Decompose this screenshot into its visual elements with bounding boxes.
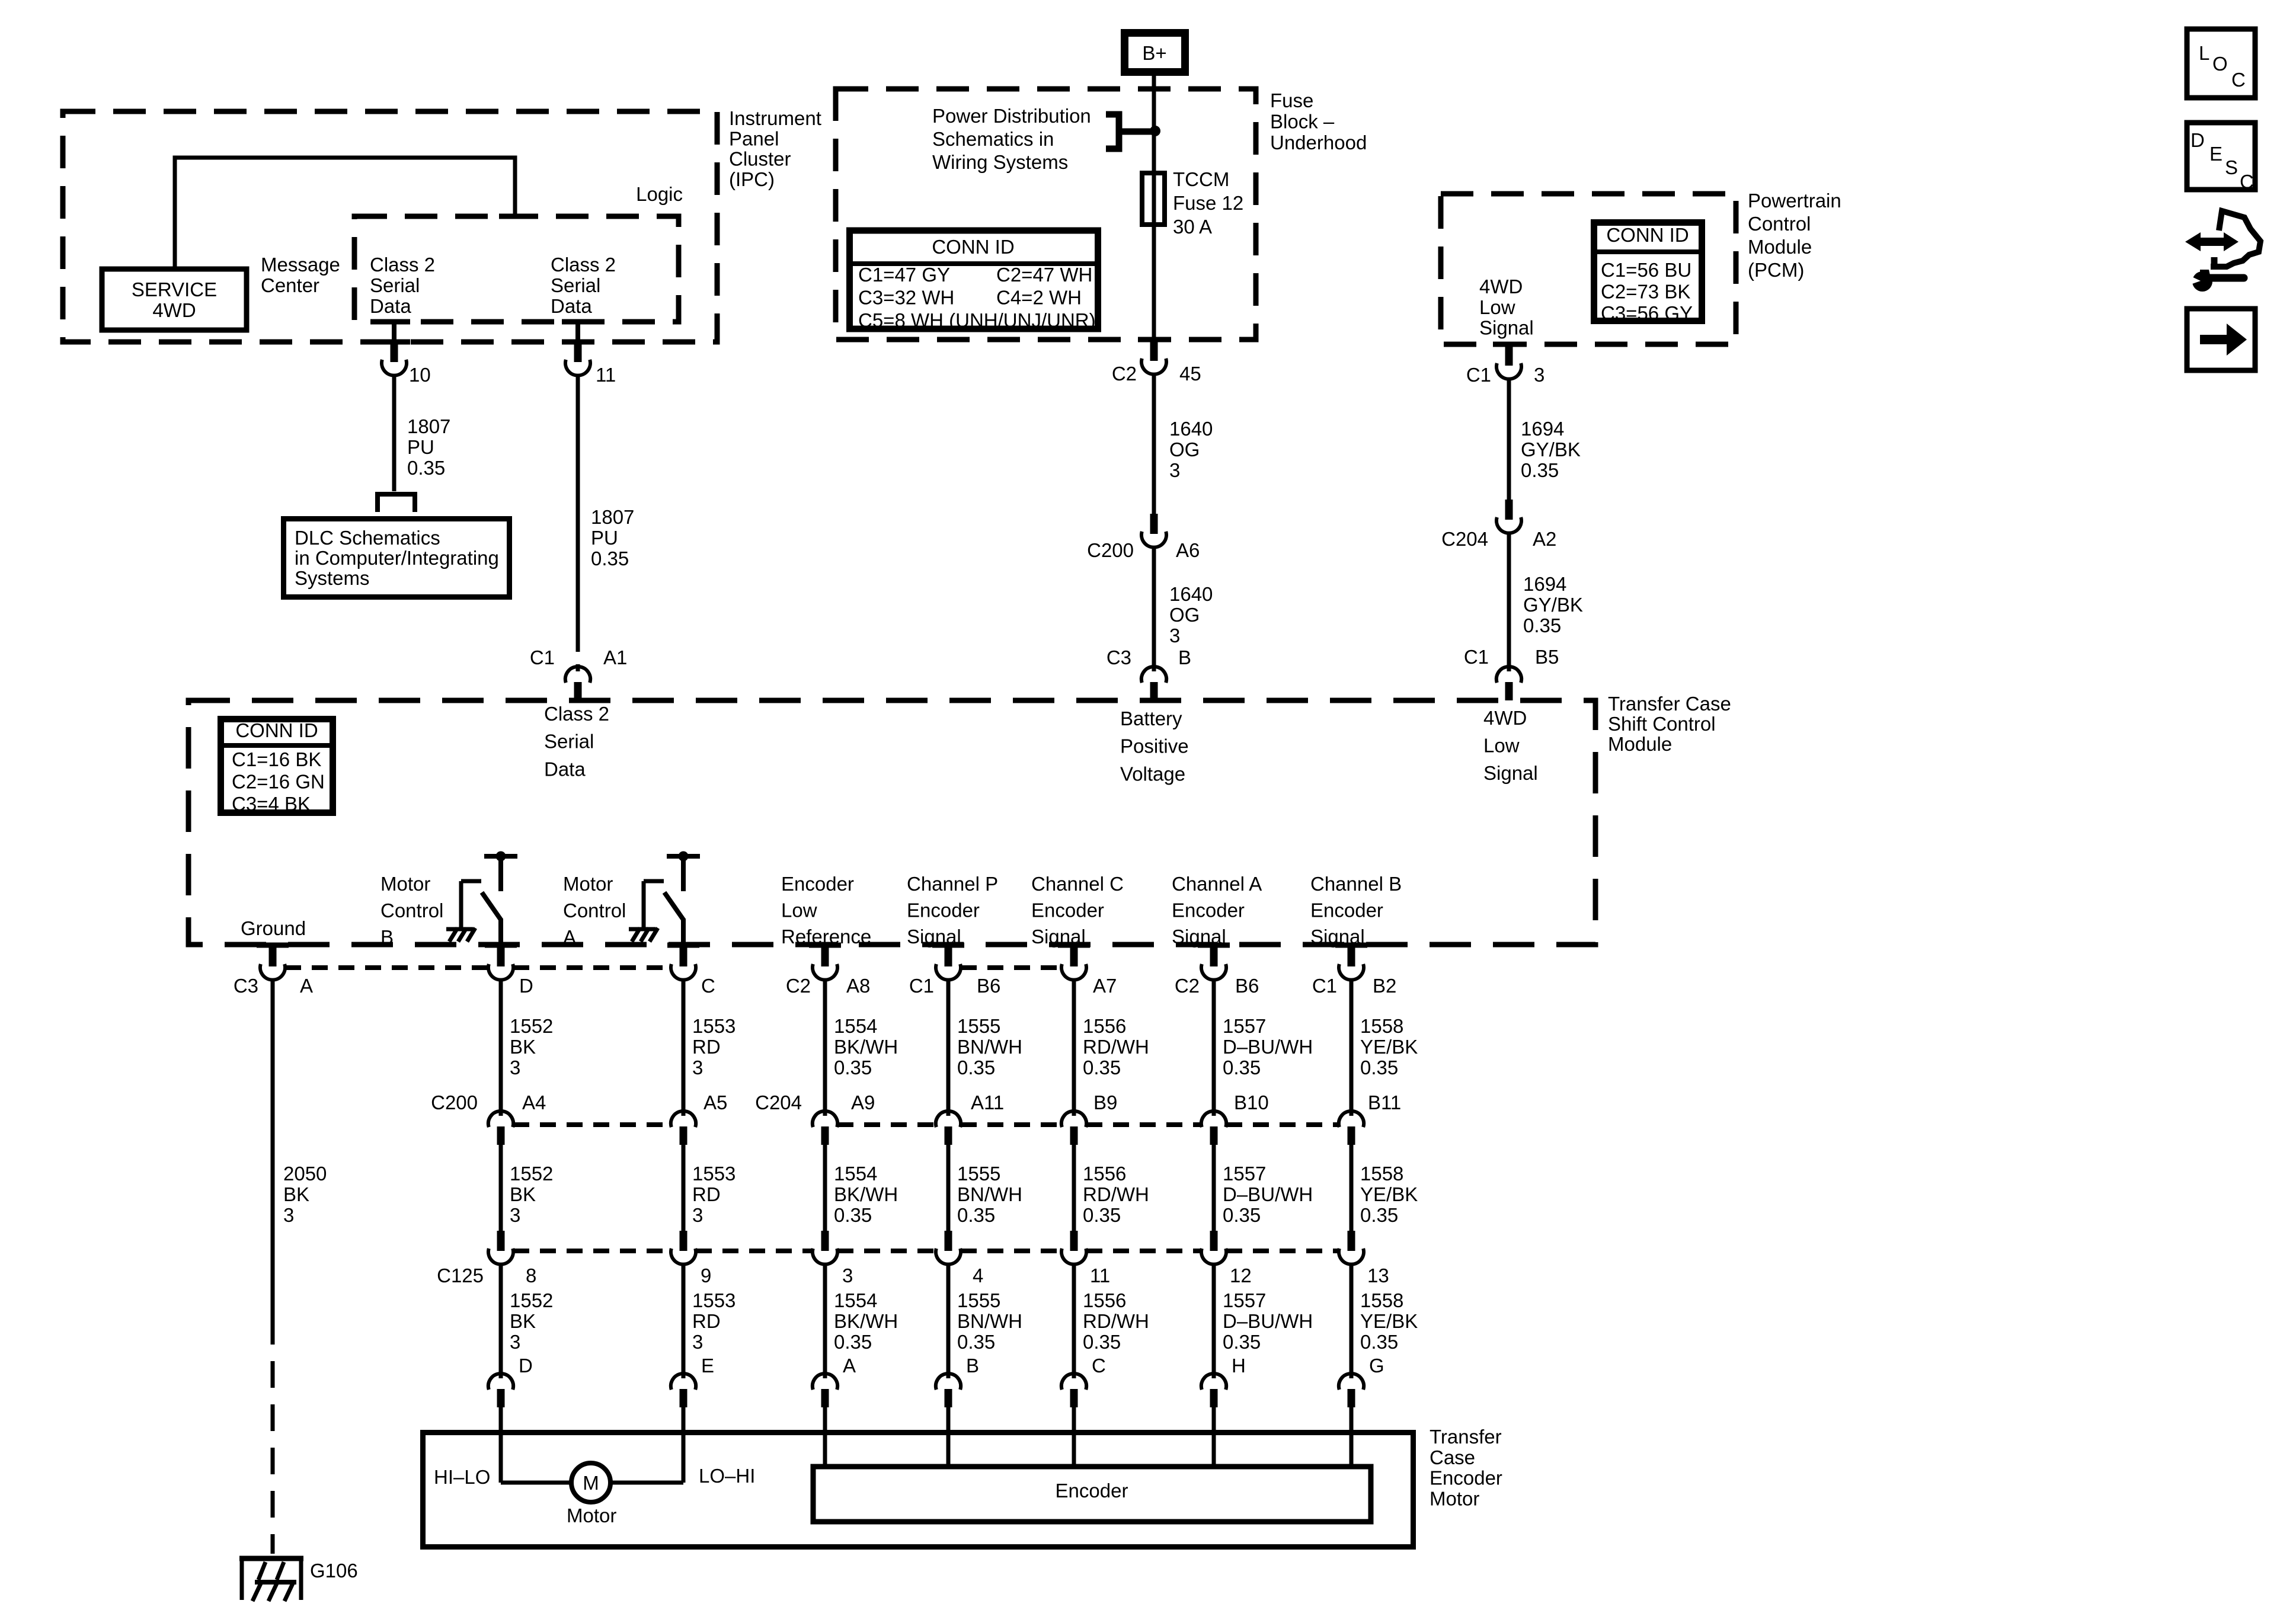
svg-text:1807: 1807 [591,506,634,528]
svg-text:Encoder: Encoder [1430,1467,1502,1489]
svg-text:1555: 1555 [957,1289,1000,1311]
wire 1558 segment2 [1350,1143,1354,1231]
svg-text:4WD: 4WD [152,299,196,321]
svg-text:1554: 1554 [834,1163,877,1185]
wire SERVICE 4WD to Logic box [175,158,515,267]
svg-text:BK/WH: BK/WH [834,1183,898,1205]
svg-text:A: A [563,926,576,948]
svg-text:D–BU/WH: D–BU/WH [1223,1183,1313,1205]
svg-text:Serial: Serial [370,274,420,296]
svg-text:1694: 1694 [1521,418,1564,440]
svg-text:0.35: 0.35 [1083,1057,1121,1078]
svg-text:Control: Control [380,900,443,921]
svg-text:C3: C3 [1107,646,1131,668]
DLC Schematics box [284,519,510,597]
wire 1558 segment1 [1350,980,1354,1110]
svg-text:A5: A5 [703,1092,727,1113]
svg-text:3: 3 [510,1331,520,1353]
svg-text:BK: BK [510,1310,536,1332]
svg-text:YE/BK: YE/BK [1360,1183,1418,1205]
wire ground 2050 BK solid [271,980,275,1318]
svg-text:C1: C1 [530,646,555,668]
svg-text:Class 2: Class 2 [551,254,616,276]
wire 1555 segment3 [946,1266,951,1372]
wire 1552 segment2 [499,1143,503,1231]
svg-text:1554: 1554 [834,1015,877,1037]
svg-text:OG: OG [1169,438,1200,460]
svg-text:Class 2: Class 2 [544,703,609,725]
link line row1 ground to D to C [285,965,488,970]
wire into encoder motor A [823,1406,827,1464]
connector row4 pin E [671,1374,682,1390]
fuse TCCM Fuse 12 [1142,173,1165,225]
svg-text:0.35: 0.35 [834,1204,872,1226]
svg-text:Encoder: Encoder [1031,900,1104,921]
svg-text:Underhood: Underhood [1270,132,1367,153]
svg-text:0.35: 0.35 [1223,1331,1261,1353]
svg-text:3: 3 [510,1204,520,1226]
wire into encoder motor H [1212,1406,1216,1464]
svg-text:B6: B6 [1235,975,1259,997]
connector row4 pin B [936,1374,946,1390]
connector row1 B2 [1348,946,1355,966]
svg-text:Center: Center [261,274,319,296]
svg-text:10: 10 [409,364,431,386]
svg-text:3: 3 [692,1331,703,1353]
svg-text:3: 3 [510,1057,520,1078]
svg-text:A1: A1 [603,646,627,668]
svg-text:Block –: Block – [1270,111,1335,133]
svg-text:H: H [1232,1355,1246,1377]
wire 1556 segment1 [1072,980,1076,1110]
svg-text:11: 11 [1090,1265,1110,1286]
svg-text:BK: BK [510,1036,536,1058]
svg-text:4: 4 [973,1265,983,1286]
svg-text:C2=47 WH: C2=47 WH [996,264,1092,286]
svg-text:O: O [2212,53,2228,75]
svg-text:0.35: 0.35 [1523,614,1561,636]
svg-text:Transfer: Transfer [1430,1426,1502,1448]
svg-text:Message: Message [261,254,340,276]
svg-text:Powertrain: Powertrain [1748,190,1841,212]
connector 11 at IPC exit [562,340,594,345]
svg-text:G106: G106 [310,1560,358,1582]
svg-text:C125: C125 [437,1265,484,1286]
svg-text:RD: RD [692,1310,721,1332]
wire 1640 seg1 [1152,375,1156,514]
wire 1807 PU from pin 11 [576,376,580,652]
svg-text:3: 3 [1534,364,1544,386]
svg-text:0.35: 0.35 [407,457,445,479]
terminal bar wire 11 Logic bottom [562,319,594,325]
svg-text:0.35: 0.35 [1083,1331,1121,1353]
svg-text:Channel C: Channel C [1031,873,1124,895]
svg-text:1558: 1558 [1360,1289,1403,1311]
wire 1554 segment1 [823,980,827,1110]
Transfer Case Encoder Motor box [423,1433,1414,1547]
connector row1 B6 [1210,946,1218,966]
svg-text:Low: Low [1479,296,1515,318]
svg-text:Logic: Logic [636,183,683,205]
CONN ID table PCM [1594,223,1702,321]
svg-text:LO–HI: LO–HI [699,1465,755,1487]
wire into encoder motor C [1072,1406,1076,1464]
svg-text:C1=16 BK: C1=16 BK [232,748,321,770]
svg-text:C: C [1092,1355,1106,1377]
connector 10 at IPC exit [378,340,410,345]
wire B+ through fuse [1152,76,1156,340]
terminal bar TCSCM bottom A7 [1058,943,1090,948]
svg-text:3: 3 [692,1057,703,1078]
svg-text:B+: B+ [1142,42,1166,64]
svg-text:45: 45 [1179,363,1201,385]
wire 1640 seg2 [1152,548,1156,667]
connector row2 A11 [936,1111,946,1127]
svg-text:12: 12 [1230,1265,1252,1286]
connector row2 A9 [813,1111,823,1127]
G106 ground symbol [239,1556,303,1561]
connector row3 pin 9 [680,1231,687,1251]
svg-text:Data: Data [544,758,586,780]
wire into encoder motor E [682,1406,686,1483]
svg-text:A8: A8 [846,975,870,997]
svg-text:Cluster: Cluster [729,148,791,170]
connector row3 pin 3 [821,1231,829,1251]
svg-text:4WD: 4WD [1479,276,1523,297]
svg-text:0.35: 0.35 [1083,1204,1121,1226]
svg-text:Panel: Panel [729,127,779,149]
Transfer Case Shift Control Module dashed box [188,700,1595,945]
link line row1 B6 to A7 [961,965,1061,970]
wire into encoder motor G [1350,1406,1354,1464]
SERVICE 4WD message box [102,269,247,330]
svg-text:1694: 1694 [1523,573,1566,595]
LOC navigation icon box [2187,29,2255,98]
connector C1-A1 entry [565,667,576,683]
svg-text:1553: 1553 [692,1289,736,1311]
wire into encoder motor B [946,1406,951,1464]
connector row3 pin 12 [1210,1231,1218,1251]
svg-text:Voltage: Voltage [1120,763,1185,785]
svg-text:Class 2: Class 2 [370,254,435,276]
svg-text:1556: 1556 [1083,1163,1126,1185]
svg-text:1552: 1552 [510,1289,553,1311]
connector row3 pin 4 [945,1231,952,1251]
svg-text:D: D [2191,129,2205,151]
svg-text:1557: 1557 [1223,1289,1266,1311]
connector row1 A7 [1070,946,1078,966]
connector row4 pin A [813,1374,823,1390]
wire 1554 segment2 [823,1143,827,1231]
svg-text:CONN ID: CONN ID [932,236,1014,258]
svg-text:C: C [701,975,715,997]
svg-text:GY/BK: GY/BK [1521,438,1581,460]
svg-text:3: 3 [1169,625,1180,646]
svg-text:Encoder: Encoder [1172,900,1245,921]
svg-text:B10: B10 [1234,1092,1269,1113]
terminal bar TCSCM bottom B6 [932,943,964,948]
svg-text:Encoder: Encoder [781,873,854,895]
svg-text:BK/WH: BK/WH [834,1036,898,1058]
svg-text:0.35: 0.35 [1521,459,1559,481]
connector row3 pin 11 [1070,1231,1078,1251]
svg-text:C3: C3 [234,975,258,997]
svg-text:D: D [519,1355,533,1377]
terminal bar TCSCM bottom B6 [1198,943,1230,948]
svg-text:C200: C200 [1087,539,1134,561]
link line row2 A4 A5 [513,1122,671,1127]
svg-text:Transfer Case: Transfer Case [1608,693,1731,715]
svg-text:Control: Control [1748,213,1811,235]
svg-text:3: 3 [1169,459,1180,481]
connector C200 A6 [1150,514,1158,534]
svg-text:0.35: 0.35 [834,1331,872,1353]
Fuse Block dashed box [836,89,1256,340]
motor feed wires [501,1481,571,1485]
terminal bar TCSCM bottom A [257,943,289,948]
svg-text:30 A: 30 A [1173,216,1212,238]
wire 1553 segment1 [682,980,686,1110]
wire 1557 segment2 [1212,1143,1216,1231]
svg-text:0.35: 0.35 [591,548,629,569]
svg-text:Serial: Serial [551,274,600,296]
connector row1 B6 [945,946,952,966]
svg-text:L: L [2199,42,2209,64]
wire 1553 segment2 [682,1143,686,1231]
wire 1552 segment3 [499,1266,503,1372]
fork symbol to DLC [378,494,415,512]
svg-text:0.35: 0.35 [1223,1204,1261,1226]
svg-text:YE/BK: YE/BK [1360,1036,1418,1058]
svg-text:C2=16 GN: C2=16 GN [232,771,325,793]
connector row1 C [680,946,687,966]
wire 1553 segment3 [682,1266,686,1372]
svg-text:C1: C1 [1466,364,1491,386]
svg-text:1640: 1640 [1169,418,1213,440]
svg-text:Module: Module [1608,733,1672,755]
svg-text:RD/WH: RD/WH [1083,1036,1149,1058]
svg-text:Serial: Serial [544,731,594,753]
svg-text:Battery: Battery [1120,708,1182,729]
link line row2 A9 to B11 [837,1122,936,1127]
svg-text:1552: 1552 [510,1163,553,1185]
svg-text:0.35: 0.35 [957,1057,995,1078]
svg-text:G: G [1369,1355,1384,1377]
svg-text:OG: OG [1169,604,1200,626]
svg-text:Fuse 12: Fuse 12 [1173,192,1243,214]
wire 1554 segment3 [823,1266,827,1372]
connector row4 pin G [1339,1374,1350,1390]
wire into encoder motor D [499,1406,503,1483]
svg-text:0.35: 0.35 [1360,1057,1398,1078]
svg-text:B9: B9 [1093,1092,1117,1113]
svg-text:Schematics in: Schematics in [932,128,1054,150]
svg-text:Encoder: Encoder [1310,900,1383,921]
svg-text:BK/WH: BK/WH [834,1310,898,1332]
svg-text:in Computer/Integrating: in Computer/Integrating [295,547,499,569]
svg-text:Wiring Systems: Wiring Systems [932,151,1068,173]
svg-text:C: C [2240,171,2254,193]
wire 1556 segment3 [1072,1266,1076,1372]
svg-text:BN/WH: BN/WH [957,1310,1022,1332]
svg-text:YE/BK: YE/BK [1360,1310,1418,1332]
svg-text:Encoder: Encoder [1056,1480,1128,1502]
svg-text:Data: Data [370,295,411,317]
svg-text:B: B [1178,646,1191,668]
svg-text:4WD: 4WD [1483,707,1527,729]
terminal bar PCM bottom [1493,342,1525,347]
svg-text:RD: RD [692,1036,721,1058]
svg-text:1552: 1552 [510,1015,553,1037]
svg-text:A6: A6 [1176,539,1200,561]
svg-text:8: 8 [526,1265,536,1286]
connector C2-45 fuse exit [1150,341,1158,361]
terminal bar fuse block bottom [1138,337,1170,343]
wire ground 2050 BK dashed [271,1318,275,1554]
svg-text:1555: 1555 [957,1163,1000,1185]
connector row2 A4 [488,1111,499,1127]
terminal bar TCSCM bottom D [485,943,517,948]
svg-text:C200: C200 [431,1092,478,1113]
svg-text:RD/WH: RD/WH [1083,1183,1149,1205]
connector row2 B9 [1061,1111,1072,1127]
svg-text:C204: C204 [755,1092,802,1113]
connector row2 B10 [1201,1111,1212,1127]
svg-text:CONN ID: CONN ID [235,719,318,741]
motor M circle [571,1463,610,1502]
connector C3-B entry [1141,667,1152,683]
svg-text:11: 11 [596,364,616,386]
svg-text:C1: C1 [1312,975,1337,997]
svg-text:Channel A: Channel A [1172,873,1262,895]
wrench diagnostic icon [2185,232,2239,251]
svg-text:Instrument: Instrument [729,107,821,129]
svg-text:C1=56 BU: C1=56 BU [1601,259,1691,281]
connector row1 D [497,946,505,966]
motor control B driver symbol [484,854,517,859]
connector C204 A2 [1505,500,1513,520]
svg-text:Case: Case [1430,1446,1475,1468]
svg-text:PU: PU [591,527,618,549]
wire 1555 segment1 [946,980,951,1110]
svg-text:SERVICE: SERVICE [132,279,217,300]
wire 1555 segment2 [946,1143,951,1231]
Powertrain Control Module dashed box [1441,194,1736,344]
svg-text:Motor: Motor [1430,1487,1479,1509]
svg-text:1556: 1556 [1083,1015,1126,1037]
svg-text:BK: BK [510,1183,536,1205]
svg-text:S: S [2225,156,2238,178]
link line row3 [513,1249,671,1253]
Instrument Panel Cluster dashed box [63,111,717,342]
svg-text:A: A [843,1355,856,1377]
svg-text:0.35: 0.35 [1223,1057,1261,1078]
svg-text:Motor: Motor [563,873,613,895]
svg-text:Systems: Systems [295,567,370,589]
connector row1 A [269,946,277,966]
B+ battery feed box [1125,33,1185,72]
wire 1557 segment3 [1212,1266,1216,1372]
svg-text:Low: Low [781,900,817,921]
svg-text:1556: 1556 [1083,1289,1126,1311]
wire 1552 segment1 [499,980,503,1110]
svg-text:B: B [966,1355,979,1377]
svg-text:0.35: 0.35 [957,1204,995,1226]
svg-text:BN/WH: BN/WH [957,1036,1022,1058]
svg-text:B: B [380,926,394,948]
terminal bar TCSCM bottom A8 [809,943,841,948]
svg-text:Encoder: Encoder [907,900,980,921]
svg-text:C2: C2 [786,975,811,997]
svg-text:0.35: 0.35 [1360,1204,1398,1226]
svg-text:1807: 1807 [407,415,450,437]
svg-text:1557: 1557 [1223,1015,1266,1037]
svg-text:C1: C1 [1464,646,1489,668]
svg-text:C1=47 GY: C1=47 GY [858,264,950,286]
svg-text:1640: 1640 [1169,583,1213,605]
svg-text:A9: A9 [851,1092,875,1113]
svg-text:1555: 1555 [957,1015,1000,1037]
CONN ID table fuse block [850,231,1098,329]
svg-text:C3=56 GY: C3=56 GY [1601,302,1693,324]
svg-text:2050: 2050 [283,1163,327,1185]
svg-text:C1: C1 [909,975,934,997]
svg-text:1553: 1553 [692,1163,736,1185]
svg-text:C3=4 BK: C3=4 BK [232,793,311,815]
wire 1558 segment3 [1350,1266,1354,1372]
svg-text:E: E [701,1355,714,1377]
Logic dashed box [354,216,679,322]
svg-text:3: 3 [692,1204,703,1226]
terminal bar wire 10 Logic bottom [378,319,410,325]
svg-text:C2: C2 [1175,975,1200,997]
svg-text:Motor: Motor [380,873,430,895]
svg-text:Low: Low [1483,735,1520,757]
svg-text:(PCM): (PCM) [1748,259,1804,281]
svg-text:0.35: 0.35 [1360,1331,1398,1353]
DESC navigation icon box [2187,123,2255,190]
svg-text:C3=32 WH: C3=32 WH [858,287,954,309]
connector row4 pin D [488,1374,499,1390]
Encoder box [813,1467,1371,1522]
svg-text:M: M [583,1472,599,1494]
svg-text:Data: Data [551,295,592,317]
svg-text:C2: C2 [1112,363,1137,385]
svg-text:B6: B6 [977,975,1000,997]
svg-text:B5: B5 [1535,646,1559,668]
svg-text:D–BU/WH: D–BU/WH [1223,1036,1313,1058]
connector row2 B11 [1339,1111,1350,1127]
svg-text:Control: Control [563,900,626,921]
bracket to power distribution [1106,114,1152,149]
forward arrow icon box [2187,309,2255,370]
svg-text:DLC Schematics: DLC Schematics [295,527,440,549]
terminal bar TCSCM bottom C [667,943,699,948]
connector row3 pin 13 [1348,1231,1355,1251]
svg-text:A: A [300,975,313,997]
svg-text:3: 3 [842,1265,853,1286]
svg-text:A7: A7 [1093,975,1117,997]
svg-text:B11: B11 [1368,1092,1401,1113]
svg-text:1553: 1553 [692,1015,736,1037]
svg-text:1557: 1557 [1223,1163,1266,1185]
svg-text:Fuse: Fuse [1270,89,1313,111]
connector row1 A8 [821,946,829,966]
svg-text:Power Distribution: Power Distribution [932,105,1091,127]
svg-text:RD: RD [692,1183,721,1205]
svg-text:GY/BK: GY/BK [1523,594,1583,616]
svg-text:1554: 1554 [834,1289,877,1311]
